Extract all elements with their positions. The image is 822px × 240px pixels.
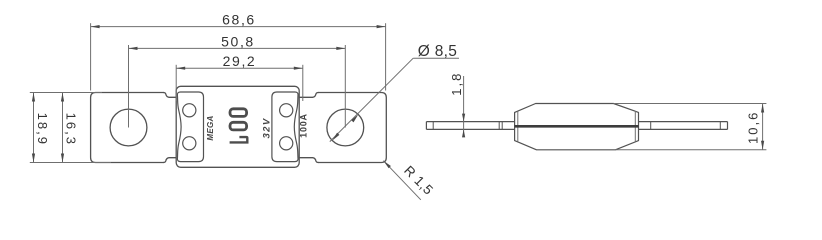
arrow 1,8 top	[462, 114, 465, 122]
arrow 10,6 bottom	[761, 141, 764, 150]
left dims ext bottom	[30, 162, 111, 164]
arrow 50,8 left	[129, 47, 138, 50]
arrow radius	[383, 161, 391, 169]
dim 29,2 ext right	[302, 65, 304, 101]
side body mid parting line	[515, 125, 639, 128]
svg-text:50,8: 50,8	[221, 33, 255, 49]
right hole	[327, 109, 364, 146]
dim 16,3 line	[62, 93, 64, 163]
blade right end cap	[727, 122, 729, 130]
arrow 16,3 top	[61, 93, 64, 102]
dim 68,6 ext right	[385, 23, 387, 90]
arrow 29,2 left	[176, 67, 185, 70]
housing outer	[176, 86, 299, 167]
blade tick 4	[719, 122, 721, 130]
arrow 1,8 bottom	[462, 129, 465, 137]
right neck top	[299, 93, 318, 98]
svg-text:MEGA: MEGA	[206, 115, 215, 140]
left tab	[91, 93, 164, 163]
dim 29,2 ext left	[175, 65, 177, 101]
svg-text:Ø 8,5: Ø 8,5	[418, 43, 457, 60]
left neck bottom	[163, 158, 176, 163]
svg-text:68,6: 68,6	[222, 12, 256, 28]
side view blade bottom	[426, 128, 727, 130]
side body seam right	[634, 111, 636, 141]
digit 0 middle	[230, 122, 247, 130]
arrow 68,6 left	[91, 25, 100, 28]
arrow 18,9 top	[32, 93, 35, 102]
arrow 29,2 right	[294, 67, 303, 70]
dim 1,8 line	[463, 76, 465, 134]
dim 10,6 ext bottom	[615, 149, 766, 151]
left rivet bottom	[183, 137, 196, 150]
svg-text:18,9: 18,9	[35, 113, 50, 146]
svg-text:10,6: 10,6	[745, 111, 760, 144]
digit 0 top	[230, 109, 247, 117]
blade tick 3	[650, 122, 652, 130]
dia leader line	[330, 58, 413, 141]
svg-text:1,8: 1,8	[449, 72, 464, 96]
dim 29,2 line	[176, 67, 303, 69]
dia text underline	[413, 57, 459, 59]
arrow dia inner	[332, 133, 339, 141]
side view blade top	[426, 121, 727, 123]
dim 50,8 ext right	[344, 45, 346, 128]
dim 18,9 line	[33, 93, 35, 163]
dim 10,6 ext top	[614, 103, 767, 105]
arrow 16,3 bottom	[61, 154, 64, 163]
right rivet top	[280, 104, 293, 117]
right tab	[318, 93, 386, 163]
side body octagon	[515, 104, 639, 150]
dim 10,6 line	[762, 104, 764, 150]
left dims ext top	[30, 92, 102, 94]
right block	[272, 92, 298, 162]
arrow 68,6 right	[377, 25, 386, 28]
blade tick 1	[432, 122, 434, 130]
arrow 18,9 bottom	[32, 154, 35, 163]
arrow dia outer	[351, 115, 358, 123]
dim 68,6 ext left	[90, 23, 92, 90]
left hole	[110, 109, 147, 146]
fuse print 100 (boxy glyphs, rotated)	[230, 109, 247, 130]
svg-text:R 1,5: R 1,5	[401, 163, 436, 198]
svg-text:100A: 100A	[299, 113, 309, 138]
digit 1 bottom	[230, 136, 249, 144]
arrow 50,8 right	[336, 47, 345, 50]
left rivet top	[183, 104, 196, 117]
svg-text:32V: 32V	[262, 117, 273, 138]
dim 68,6 line	[91, 26, 386, 28]
svg-text:16,3: 16,3	[64, 113, 79, 146]
left neck top	[163, 93, 176, 98]
dim 50,8 line	[129, 47, 346, 49]
blade left end cap	[425, 122, 427, 130]
dim 50,8 ext left	[128, 45, 130, 128]
right neck bottom	[299, 158, 318, 163]
svg-text:29,2: 29,2	[223, 53, 257, 69]
radius leader line	[383, 161, 420, 200]
side body seam left	[517, 111, 519, 141]
arrow 10,6 top	[761, 104, 764, 113]
blade tick 2	[499, 122, 502, 130]
right rivet bottom	[280, 137, 293, 150]
left block	[177, 92, 203, 162]
